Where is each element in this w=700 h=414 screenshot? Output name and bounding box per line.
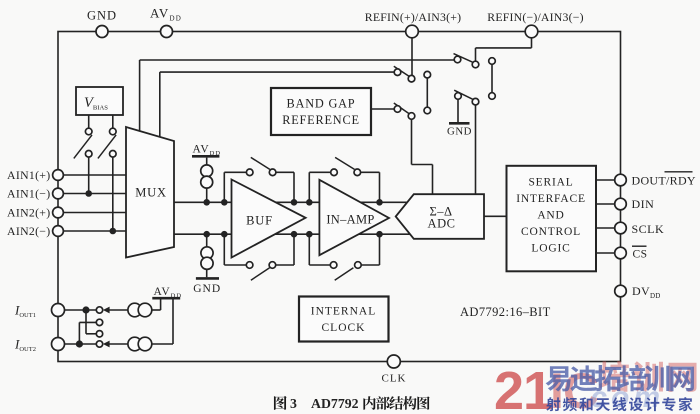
wire BUF top bypass xyxy=(223,172,225,202)
watermark blue rf line xyxy=(546,397,560,411)
chip boundary xyxy=(58,32,621,362)
pin SCLK xyxy=(615,222,627,234)
junction bias tap on AIN1(-) xyxy=(85,190,92,197)
switch bias SW1 xyxy=(74,135,92,159)
switch throw contacts IOUT xyxy=(96,307,102,313)
wire VBIAS stub 2 xyxy=(112,115,114,129)
power AVDD rail IOUT xyxy=(152,297,180,300)
svg-text:CONTROL: CONTROL xyxy=(521,226,581,238)
wire stub DIN xyxy=(596,203,615,205)
junction IOUT2 xyxy=(76,340,83,347)
svg-text:REFIN(−)/AIN3(−): REFIN(−)/AIN3(−) xyxy=(487,10,583,24)
junction lower A xyxy=(203,231,210,238)
svg-text:REFERENCE: REFERENCE xyxy=(282,113,360,127)
junction upper A xyxy=(203,199,210,206)
pin AVDD top xyxy=(161,26,173,38)
block INTERNAL CLOCK xyxy=(299,297,389,342)
wire stub CS xyxy=(596,252,615,254)
wire VBIAS stub 1 xyxy=(88,115,90,129)
svg-text:AIN2(−): AIN2(−) xyxy=(7,224,50,238)
svg-text:AND: AND xyxy=(537,210,564,222)
svg-text:AD7792: AD7792 xyxy=(311,396,359,411)
junction bias tap on AIN2(-) xyxy=(110,228,117,235)
wire bias tap 1 xyxy=(88,157,90,194)
svg-text:IOUT1: IOUT1 xyxy=(14,303,36,320)
pin REFIN(-)/AIN3(-) xyxy=(525,25,538,38)
wire MUX top rail 1 vertical xyxy=(139,60,141,140)
block SERIAL INTERFACE AND CONTROL LOGIC xyxy=(507,166,597,271)
wire upper signal line xyxy=(174,201,411,203)
junction upper B xyxy=(221,199,228,206)
block V_BIAS box xyxy=(76,87,123,115)
current source lower pair xyxy=(201,247,213,259)
wire IN-AMP top bypass xyxy=(308,172,310,202)
switch J1 closed jumper xyxy=(426,78,428,108)
wire MUX top rail 2 vertical xyxy=(159,72,161,143)
pin AIN1(+) xyxy=(53,170,64,181)
wire AIN2(-) to MUX xyxy=(64,230,130,232)
current source IOUT1 pair xyxy=(128,303,142,317)
svg-text:AVDD: AVDD xyxy=(193,144,222,158)
wire lower signal line xyxy=(174,233,412,235)
junction upper C xyxy=(291,199,298,206)
switch J2 closed jumper xyxy=(491,64,493,93)
pin AIN1(-) xyxy=(53,188,64,199)
wire AVDD stem xyxy=(206,158,208,203)
pin IOUT1 xyxy=(52,304,65,317)
switch S4 GND row xyxy=(454,90,473,99)
wire BUF bottom bypass xyxy=(223,234,225,265)
wire GND stem lower xyxy=(206,234,208,277)
pin AIN2(+) xyxy=(53,207,64,218)
wire AIN1(+) to MUX xyxy=(64,174,130,176)
wire S4 to ADC top xyxy=(475,105,477,195)
wire stub DOUT xyxy=(596,179,615,181)
ground symbol reference mux xyxy=(449,122,470,125)
pin AIN2(-) xyxy=(53,226,64,237)
wire rail 1 horizontal xyxy=(140,59,455,61)
pin GND top xyxy=(96,26,108,38)
pin DIN xyxy=(615,198,627,210)
switch S1 rail1-REFIN(-) xyxy=(454,54,473,63)
overline RDY xyxy=(665,171,693,173)
svg-text:INTERNAL: INTERNAL xyxy=(311,306,377,318)
wire REFIN(-) drop xyxy=(531,38,533,48)
switch S2 rail2-REFIN(+) xyxy=(394,66,409,76)
svg-text:AIN1(−): AIN1(−) xyxy=(7,186,50,200)
pin DOUT/RDY xyxy=(615,174,627,186)
wire IOUT2 row xyxy=(65,343,97,345)
junction lower D xyxy=(306,231,313,238)
svg-text:CLOCK: CLOCK xyxy=(322,322,366,334)
arrowhead IOUT2 xyxy=(103,341,110,348)
svg-text:GND: GND xyxy=(193,283,221,295)
junction IOUT1 xyxy=(82,306,89,313)
svg-text:SERIAL: SERIAL xyxy=(528,177,573,189)
adc sigma-delta block xyxy=(396,194,484,239)
wire AIN2(+) to MUX xyxy=(64,212,130,214)
svg-text:INTERFACE: INTERFACE xyxy=(516,193,586,205)
current source upper pair xyxy=(201,165,213,177)
svg-text:ADC: ADC xyxy=(428,217,456,231)
caption figure 3 AD7792 internal structure xyxy=(274,396,287,410)
wire REFIN(+) drop xyxy=(411,38,413,76)
junction lower B xyxy=(221,231,228,238)
svg-text:21: 21 xyxy=(494,361,552,414)
pin DVDD xyxy=(615,285,627,297)
switch BUF bottom xyxy=(251,268,270,280)
pin CS xyxy=(615,247,627,259)
svg-text:MUX: MUX xyxy=(135,186,167,200)
switch BUF top xyxy=(251,157,270,169)
wire IOUT2 to upper throw xyxy=(78,322,80,344)
svg-text:GND: GND xyxy=(447,126,472,138)
switch IN-AMP top xyxy=(335,157,354,169)
svg-text:REFIN(+)/AIN3(+): REFIN(+)/AIN3(+) xyxy=(365,10,461,24)
svg-text:AD7792:16–BIT: AD7792:16–BIT xyxy=(460,305,551,319)
svg-text:IOUT2: IOUT2 xyxy=(14,337,36,354)
arrowhead IOUT1 xyxy=(103,307,110,314)
wire bias tap 2 xyxy=(112,157,114,231)
pin CLK xyxy=(387,355,400,368)
op-amp IN-AMP xyxy=(319,180,389,255)
svg-text:BAND GAP: BAND GAP xyxy=(287,97,356,111)
svg-text:LOGIC: LOGIC xyxy=(531,243,570,255)
svg-text:AVDD: AVDD xyxy=(154,286,183,300)
junction lower C xyxy=(291,231,298,238)
wire stub SCLK xyxy=(596,227,615,229)
svg-text:SCLK: SCLK xyxy=(632,222,665,236)
wire S3 to ADC top xyxy=(411,119,413,165)
op-amp BUF xyxy=(232,180,306,258)
svg-text:IN–AMP: IN–AMP xyxy=(326,213,374,227)
current source IOUT2 pair xyxy=(128,337,142,351)
svg-text:DIN: DIN xyxy=(632,197,655,211)
pin REFIN(+)/AIN3(+) xyxy=(406,25,419,38)
svg-text:CS: CS xyxy=(633,249,648,261)
svg-text:3: 3 xyxy=(290,396,297,411)
svg-text:DOUT/RDY: DOUT/RDY xyxy=(632,173,696,187)
watermark blue yiditu xyxy=(546,366,571,391)
switch S3 bandgap-ADC xyxy=(394,103,409,114)
wire IN-AMP bottom bypass xyxy=(308,234,310,265)
wire S4 to GND xyxy=(457,99,459,122)
wire IOUT1 row xyxy=(65,309,97,311)
svg-text:AIN1(+): AIN1(+) xyxy=(7,168,50,182)
block BAND GAP REFERENCE xyxy=(271,88,371,135)
wire IOUT1 to lower throw xyxy=(85,310,87,334)
svg-text:DVDD: DVDD xyxy=(632,284,661,300)
wire rail 2 horizontal xyxy=(160,71,395,73)
overline CS xyxy=(632,245,647,247)
svg-text:BUF: BUF xyxy=(246,214,273,228)
switch IN-AMP bottom xyxy=(335,268,354,280)
wire AIN1(-) to MUX xyxy=(64,193,130,195)
wire ADC to serial interface xyxy=(484,215,507,217)
wire band gap output xyxy=(371,108,395,110)
svg-text:AVDD: AVDD xyxy=(150,6,182,23)
power AVDD rail near MUX xyxy=(192,155,219,158)
svg-text:CLK: CLK xyxy=(382,373,407,385)
watermark red chars xyxy=(599,361,630,392)
switch bias SW2 xyxy=(98,135,116,159)
junction lower E xyxy=(376,231,383,238)
svg-text:GND: GND xyxy=(87,9,117,23)
pin IOUT2 xyxy=(52,338,65,351)
block MUX xyxy=(126,127,174,258)
ground symbol below current source xyxy=(196,277,219,280)
svg-text:AIN2(+): AIN2(+) xyxy=(7,205,50,219)
junction upper D xyxy=(306,199,313,206)
junction upper E xyxy=(376,199,383,206)
